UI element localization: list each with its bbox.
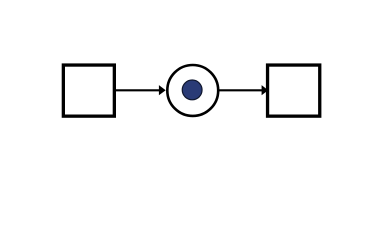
wire from T1 to place P1	[116, 89, 161, 91]
wire from place P1 to T2	[218, 89, 263, 91]
place P1 (circle)	[167, 65, 218, 116]
transition T1 (left square)	[63, 65, 114, 116]
token (blue dot) in place P1	[182, 80, 202, 100]
transition T2 (right square)	[268, 65, 320, 116]
arrowhead into T2	[262, 85, 269, 95]
arrowhead into place P1	[159, 85, 166, 95]
